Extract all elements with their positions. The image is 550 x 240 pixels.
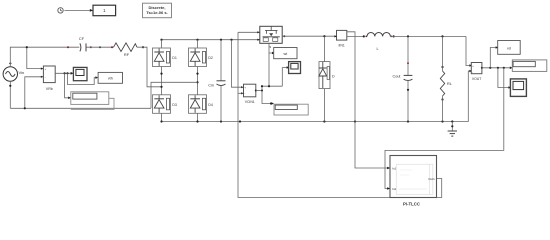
clock block bbox=[58, 8, 63, 13]
wire VRb output bbox=[55, 72, 73, 75]
voltage measurement VOUT bbox=[471, 63, 483, 81]
wire source top bbox=[10, 47, 79, 67]
svg-text:D1: D1 bbox=[172, 56, 177, 60]
wire MOSFET output rail bbox=[282, 35, 336, 37]
svg-text:Pi-TLCC: Pi-TLCC bbox=[403, 202, 420, 207]
wire s node bbox=[256, 43, 288, 103]
node rail junctions bbox=[160, 39, 162, 41]
svg-text:-: - bbox=[244, 92, 245, 96]
svg-text:Cout: Cout bbox=[392, 75, 401, 79]
svg-text:wt: wt bbox=[283, 52, 287, 56]
svg-text:Cin: Cin bbox=[208, 83, 214, 87]
wire to vth block bbox=[68, 73, 98, 84]
display3 bbox=[512, 60, 547, 72]
wire RF to bridge left leg bbox=[137, 47, 162, 87]
wire IIN1 signal to In1 bbox=[347, 32, 389, 168]
capacitor Cout bbox=[404, 36, 413, 121]
svg-text:VRb: VRb bbox=[46, 87, 53, 91]
resistor RL bbox=[440, 36, 444, 121]
current measurement IIN1 bbox=[334, 30, 346, 47]
block wt bbox=[274, 48, 297, 59]
wire bridge right leg mid bbox=[197, 67, 199, 95]
wire source return to right leg bbox=[151, 82, 198, 108]
bridge top rail bbox=[162, 39, 260, 41]
block vth bbox=[98, 72, 122, 83]
AC source Vin bbox=[3, 62, 17, 81]
wire CF to RF bbox=[87, 46, 114, 48]
wire VRb input 2 bbox=[25, 77, 41, 109]
node CF terminals bbox=[67, 46, 69, 48]
wire to scope4 bbox=[498, 68, 510, 88]
wire clock to display bbox=[64, 9, 93, 12]
block vd bbox=[498, 41, 521, 55]
wire gate feedback bbox=[238, 32, 442, 197]
svg-text:Ts=1e-06 s.: Ts=1e-06 s. bbox=[146, 10, 167, 15]
voltage measurement VRb bbox=[41, 66, 55, 91]
wire VCIN1 plus bbox=[232, 40, 242, 87]
powergui block bbox=[143, 3, 172, 18]
diode D1 bbox=[153, 40, 177, 67]
scope Scope3 bbox=[289, 62, 301, 74]
svg-text:RL: RL bbox=[447, 82, 452, 86]
wire VOUT output bbox=[482, 67, 512, 69]
wire to vd block bbox=[490, 48, 497, 68]
wire display1 loop bbox=[71, 98, 114, 109]
top right rail bbox=[390, 35, 466, 37]
wire bridge left leg mid bbox=[161, 67, 163, 95]
svg-text:Vin: Vin bbox=[19, 70, 25, 75]
svg-text:In2: In2 bbox=[392, 187, 397, 191]
scope Scope4 bbox=[510, 79, 526, 97]
node source bottom bbox=[9, 85, 11, 87]
bottom bus wire bbox=[162, 121, 468, 123]
wire VRb input 1 bbox=[27, 47, 41, 68]
node RF terminals bbox=[99, 46, 101, 48]
wire IIN1 to inductor bbox=[347, 35, 364, 37]
svg-text:VCIN1: VCIN1 bbox=[245, 100, 255, 104]
svg-text:vd: vd bbox=[507, 46, 511, 50]
svg-text:L: L bbox=[377, 47, 379, 51]
display1 bbox=[71, 92, 109, 105]
diode D2 bbox=[189, 40, 213, 67]
scope Scope1 bbox=[73, 67, 87, 80]
svg-text:D3: D3 bbox=[172, 103, 177, 107]
wire VOUT signal to In2 bbox=[385, 68, 504, 189]
diode D4 bbox=[189, 95, 213, 122]
display block "1" bbox=[93, 5, 116, 16]
diode D3 bbox=[153, 95, 177, 122]
svg-text:D: D bbox=[332, 75, 335, 79]
inductor L bbox=[367, 32, 390, 36]
wire VCIN1 minus bbox=[238, 92, 241, 94]
svg-text:CF: CF bbox=[79, 36, 85, 41]
diode D buck bbox=[319, 36, 335, 121]
wire to display1 bbox=[65, 73, 70, 98]
capacitor CF bbox=[80, 43, 86, 51]
wire source bottom bbox=[10, 81, 151, 108]
subsystem Pi-TLCC bbox=[387, 156, 436, 207]
svg-text:D2: D2 bbox=[208, 56, 213, 60]
display2 bbox=[274, 104, 308, 115]
svg-text:Out1: Out1 bbox=[428, 177, 435, 181]
MOSFET U1 bbox=[257, 26, 285, 49]
svg-text:-: - bbox=[472, 70, 473, 74]
wire VOUT minus tap bbox=[468, 71, 471, 122]
svg-text:vth: vth bbox=[108, 77, 113, 81]
resistor RF bbox=[114, 43, 138, 52]
voltage measurement VCIN1 bbox=[241, 84, 257, 104]
wire VOUT plus tap bbox=[466, 36, 471, 65]
capacitor Cin bbox=[217, 40, 226, 122]
svg-text:In1: In1 bbox=[392, 167, 397, 171]
svg-text:-: - bbox=[45, 75, 46, 79]
svg-text:RF: RF bbox=[124, 52, 130, 57]
svg-text:D4: D4 bbox=[208, 103, 213, 107]
svg-text:VOUT: VOUT bbox=[472, 77, 481, 81]
ground bbox=[448, 122, 457, 137]
svg-text:IIN1: IIN1 bbox=[338, 44, 344, 48]
